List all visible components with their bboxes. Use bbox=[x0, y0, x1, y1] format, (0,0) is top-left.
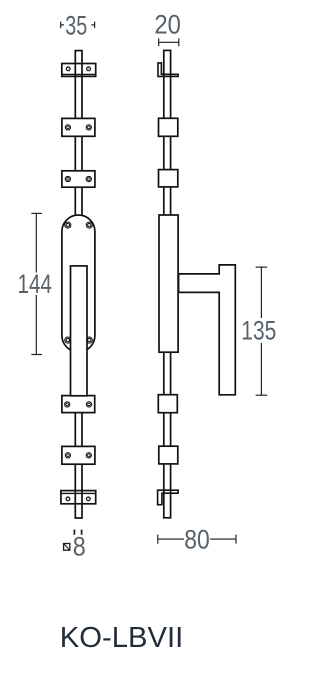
svg-text:KO-LBVII: KO-LBVII bbox=[60, 622, 183, 654]
front lower guide plate 3 bbox=[62, 396, 95, 413]
front handle grip bar bbox=[71, 266, 88, 396]
side lower guide block 3 bbox=[158, 395, 177, 413]
side guide block 1 bbox=[159, 118, 178, 136]
front guide plate 1 bbox=[62, 118, 95, 136]
svg-text:35: 35 bbox=[65, 10, 87, 40]
side top keeper bracket bbox=[158, 63, 178, 77]
front view vertical rod bbox=[75, 51, 82, 518]
dimension 8 ticks bbox=[74, 530, 81, 535]
side view vertical rod bbox=[164, 50, 171, 517]
svg-text:135: 135 bbox=[241, 316, 276, 346]
dimension 135 line bbox=[256, 267, 268, 395]
svg-text:80: 80 bbox=[184, 525, 210, 555]
product name KO-LBVII bbox=[60, 622, 183, 654]
front guide plate 4 bbox=[62, 446, 95, 464]
front oval backplate bbox=[62, 215, 95, 352]
svg-text:144: 144 bbox=[18, 269, 52, 299]
dimension 35 ticks bbox=[61, 22, 95, 29]
front top keeper plate bbox=[62, 64, 96, 77]
front bottom keeper plate bbox=[61, 491, 96, 504]
side handle neck and grip bbox=[179, 265, 236, 395]
dimension 80 line bbox=[158, 535, 236, 544]
dimension 20 line bbox=[159, 38, 179, 46]
front guide plate 2 bbox=[62, 171, 95, 187]
side bottom keeper bracket bbox=[158, 490, 179, 505]
svg-text:8: 8 bbox=[73, 531, 86, 561]
svg-text:20: 20 bbox=[154, 9, 181, 39]
side guide block 2 bbox=[159, 170, 178, 187]
side backplate bbox=[159, 215, 178, 352]
side guide block 4 bbox=[159, 446, 178, 464]
square section symbol bbox=[64, 544, 70, 551]
dimension 144 line bbox=[31, 213, 42, 354]
